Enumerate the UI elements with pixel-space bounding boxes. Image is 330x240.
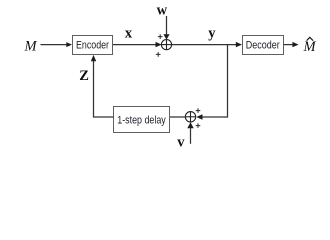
- wire M to Encoder with arrowhead: [41, 42, 73, 47]
- svg-text:Encoder: Encoder: [76, 40, 109, 52]
- block 1-step delay: [114, 107, 170, 133]
- wire branch from y down to summing junction S2 with arrowhead: [196, 45, 227, 120]
- plus sign at S1 upper input: [158, 34, 163, 39]
- node y (signal label): [208, 26, 216, 42]
- block Decoder: [243, 36, 284, 55]
- wire S2 to 1-step delay block: [170, 116, 186, 118]
- svg-text:v: v: [177, 135, 185, 151]
- plus sign at S1 lower input: [156, 52, 161, 57]
- wire 1-step delay to Encoder bottom (feedback) with arrowhead: [91, 55, 114, 117]
- node Z (feedback signal label): [79, 68, 89, 84]
- svg-text:Z: Z: [79, 68, 89, 84]
- wire Encoder to summing junction S1 with arrowhead: [113, 42, 162, 47]
- svg-text:M: M: [303, 39, 317, 55]
- plus sign at S2 lower input: [196, 123, 201, 128]
- wire v into S2 with arrowhead: [187, 122, 193, 144]
- svg-text:y: y: [208, 26, 216, 42]
- node Mhat (output label with circumflex): [303, 37, 317, 55]
- svg-text:M: M: [24, 38, 38, 54]
- wire S1 to Decoder with arrowhead: [172, 42, 243, 47]
- svg-text:1-step delay: 1-step delay: [117, 114, 166, 126]
- wire w into S1 with arrowhead: [163, 16, 169, 40]
- node w (noise label): [157, 3, 168, 19]
- svg-text:x: x: [125, 26, 133, 42]
- block Encoder: [73, 36, 113, 55]
- summing junction S2 (circle with cross): [185, 112, 195, 122]
- node v (noise label): [177, 135, 185, 151]
- node M (input label): [24, 38, 38, 54]
- plus sign at S2 upper input: [196, 108, 201, 113]
- wire Decoder to Mhat with arrowhead: [284, 42, 299, 47]
- summing junction S1 (circle with cross): [161, 40, 171, 50]
- svg-text:Decoder: Decoder: [246, 40, 280, 52]
- node x (signal label): [125, 26, 133, 42]
